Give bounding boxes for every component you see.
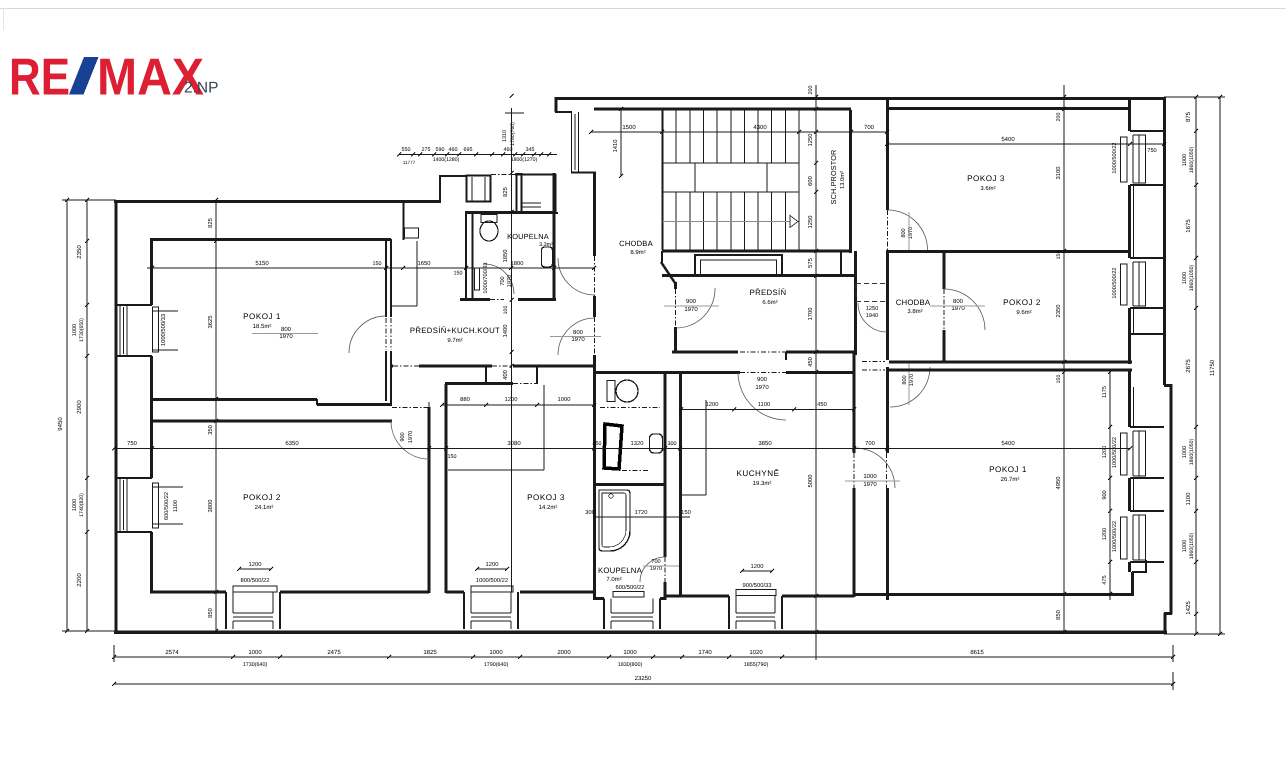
svg-text:1940: 1940 <box>866 313 878 319</box>
svg-text:900: 900 <box>757 376 768 383</box>
svg-text:700: 700 <box>500 276 506 285</box>
niche lines right of pokoj1 wall <box>416 241 418 306</box>
svg-text:PŘEDSÍŇ+KUCH.KOUT: PŘEDSÍŇ+KUCH.KOUT <box>410 326 500 335</box>
svg-text:2.NP: 2.NP <box>184 80 218 97</box>
svg-text:800: 800 <box>953 298 964 305</box>
svg-text:1000: 1000 <box>863 473 877 480</box>
svg-text:1970: 1970 <box>755 384 769 391</box>
pokoj1r bottom wall <box>854 593 1133 596</box>
svg-text:850: 850 <box>207 608 214 618</box>
svg-text:1000: 1000 <box>1182 154 1188 166</box>
svg-text:POKOJ 1: POKOJ 1 <box>989 465 1027 474</box>
stair block top wall <box>594 108 851 111</box>
radiator koupelna <box>613 592 644 598</box>
svg-text:6.6m²: 6.6m² <box>762 299 777 306</box>
outer wall left <box>115 200 118 631</box>
koupelna door dashed <box>664 557 666 582</box>
svg-text:1000: 1000 <box>1182 446 1188 458</box>
svg-text:900: 900 <box>1102 490 1108 499</box>
right rooms east wall with window gaps <box>1128 97 1131 131</box>
svg-text:24.1m²: 24.1m² <box>255 504 274 511</box>
svg-text:4300: 4300 <box>753 124 767 131</box>
dim line right outer <box>1195 97 1197 634</box>
pokoj1 left inner wall upper <box>150 239 153 305</box>
svg-text:POKOJ 2: POKOJ 2 <box>243 493 281 502</box>
koupelna7 north wall <box>594 483 665 486</box>
svg-text:3.6m²: 3.6m² <box>980 185 995 192</box>
svg-text:9.6m²: 9.6m² <box>1016 309 1031 316</box>
svg-text:8615: 8615 <box>970 649 984 656</box>
predsin south jog <box>785 352 787 360</box>
pokoj3 bottom west wall <box>445 384 448 593</box>
door chodba to predsin+kuchkout dashed <box>594 317 596 355</box>
entry window in south wall <box>522 202 541 204</box>
svg-text:1000: 1000 <box>558 396 571 403</box>
svg-text:1250: 1250 <box>866 306 878 312</box>
svg-text:PŘEDSÍŇ: PŘEDSÍŇ <box>750 288 787 297</box>
right window bay 2 <box>1130 257 1164 259</box>
svg-text:900: 900 <box>400 432 406 441</box>
svg-text:1850: 1850 <box>502 250 509 263</box>
outer wall right lower <box>1170 384 1173 614</box>
svg-text:1720: 1720 <box>635 509 648 516</box>
radiator koupelna33 <box>475 268 480 290</box>
svg-text:1740(820): 1740(820) <box>79 493 85 517</box>
long vertical dim line x511 <box>511 108 513 592</box>
svg-text:1000/500/22: 1000/500/22 <box>1111 521 1118 552</box>
svg-text:1500: 1500 <box>622 124 636 131</box>
svg-text:1400: 1400 <box>502 325 509 338</box>
chodba38 east wall <box>943 251 946 289</box>
vertical dim line x1110 <box>1109 372 1111 600</box>
svg-text:13.0m²: 13.0m² <box>839 171 846 189</box>
svg-text:2350: 2350 <box>1055 305 1062 318</box>
svg-text:1970: 1970 <box>408 431 414 443</box>
south wall of predsin+kuch.kout - left part <box>391 365 393 368</box>
svg-text:1970: 1970 <box>650 566 662 572</box>
bottom window bay 3 <box>603 599 605 630</box>
svg-text:9450: 9450 <box>57 417 64 431</box>
shaft dark box <box>604 424 622 469</box>
wall jog step <box>316 399 318 405</box>
svg-text:1740: 1740 <box>698 649 712 656</box>
svg-text:POKOJ 2: POKOJ 2 <box>1003 298 1041 307</box>
svg-text:700: 700 <box>865 440 875 447</box>
svg-text:7.0m²: 7.0m² <box>606 576 621 583</box>
door vestibule-chodba dashed <box>594 256 596 296</box>
svg-text:1000/500/33: 1000/500/33 <box>160 314 167 346</box>
predsin west door arc <box>676 288 715 328</box>
svg-text:825: 825 <box>502 187 509 197</box>
dim line y132 stairs <box>591 131 887 133</box>
svg-text:1250: 1250 <box>807 134 814 147</box>
dim row bottom total <box>114 683 1173 685</box>
dim line y268 pokoj1 <box>147 267 594 269</box>
svg-text:1780(760): 1780(760) <box>510 122 516 146</box>
wardrobe lines pokoj3 <box>543 385 545 470</box>
entry step wall <box>439 175 441 202</box>
svg-text:350: 350 <box>207 425 214 435</box>
svg-text:2900: 2900 <box>76 400 83 414</box>
svg-text:150: 150 <box>454 271 463 277</box>
outer wall right jog <box>1164 384 1172 387</box>
svg-text:1000: 1000 <box>1182 272 1188 284</box>
kitchen east wall <box>853 352 856 453</box>
stair landing lines <box>663 162 800 164</box>
svg-text:1860(1050): 1860(1050) <box>1189 438 1195 465</box>
predsin east wall <box>854 251 857 355</box>
svg-text:1970: 1970 <box>863 481 877 488</box>
svg-text:1250: 1250 <box>807 216 814 229</box>
pokoj1 top inner wall <box>150 238 391 241</box>
koupelna door arc <box>484 264 514 294</box>
bottom window bay 1 <box>225 592 227 629</box>
svg-text:880: 880 <box>460 396 470 403</box>
svg-text:1000/500/22: 1000/500/22 <box>1111 142 1118 173</box>
svg-text:SCH.PROSTOR: SCH.PROSTOR <box>829 150 838 205</box>
svg-text:3.3m²: 3.3m² <box>539 242 553 248</box>
svg-text:1860(1050): 1860(1050) <box>1189 264 1195 291</box>
predsin west wall <box>674 282 677 289</box>
svg-text:1825: 1825 <box>423 649 437 656</box>
svg-text:3800: 3800 <box>207 500 214 513</box>
predsin top wall <box>662 274 855 277</box>
bottom window bay 4 <box>728 596 730 629</box>
radiator right 1 <box>1121 137 1128 182</box>
svg-text:3850: 3850 <box>758 440 772 447</box>
dim line top entry <box>399 154 557 156</box>
chimney block at entry <box>467 176 491 202</box>
long vertical dim line x1064 <box>1063 85 1065 634</box>
svg-text:200: 200 <box>808 86 814 95</box>
pokoj3 top wall inner <box>888 107 1130 110</box>
svg-text:550: 550 <box>402 147 411 153</box>
svg-text:800: 800 <box>281 326 292 333</box>
svg-text:1000: 1000 <box>1182 540 1188 552</box>
svg-text:1200: 1200 <box>486 561 499 568</box>
svg-text:MAX: MAX <box>97 49 204 107</box>
stair walk line with arrow <box>663 221 791 223</box>
svg-text:1860(1050): 1860(1050) <box>1189 532 1195 559</box>
svg-text:1860(1050): 1860(1050) <box>1189 146 1195 173</box>
stair right string line <box>798 110 800 250</box>
svg-text:POKOJ 3: POKOJ 3 <box>967 174 1005 183</box>
svg-text:1400(1280): 1400(1280) <box>433 157 460 163</box>
pokoj2 north wall <box>150 420 392 423</box>
svg-text:2675: 2675 <box>1185 359 1192 373</box>
svg-text:POKOJ 3: POKOJ 3 <box>527 493 565 502</box>
outer wall bottom-right notch <box>1164 612 1172 615</box>
svg-text:1410: 1410 <box>612 140 619 153</box>
koupelna door dashed <box>490 299 504 301</box>
svg-text:1425: 1425 <box>1185 601 1192 615</box>
pokoj1 left inner wall lower <box>150 356 153 399</box>
entry inner wall block <box>517 174 522 213</box>
sink wc <box>650 434 663 453</box>
wc/kitchen north wall <box>594 371 740 374</box>
svg-text:150: 150 <box>373 261 382 267</box>
dim line y144 pokoj3 top <box>887 143 1164 145</box>
svg-text:600/500/22: 600/500/22 <box>615 584 644 591</box>
dim vertical 1410 <box>620 109 622 176</box>
svg-text:2475: 2475 <box>327 649 341 656</box>
svg-text:11750: 11750 <box>1209 359 1216 376</box>
door chodba38-pokoj3t dashed <box>887 210 889 250</box>
svg-text:1200: 1200 <box>249 561 262 568</box>
svg-text:5000: 5000 <box>807 475 814 488</box>
svg-text:800/500/22: 800/500/22 <box>240 577 269 584</box>
svg-text:1200: 1200 <box>751 563 764 570</box>
svg-text:18.5m²: 18.5m² <box>253 323 272 330</box>
long vertical dim line x216 <box>215 200 217 631</box>
sch.prostor right wall <box>849 110 852 253</box>
svg-text:8.9m²: 8.9m² <box>630 249 645 256</box>
svg-text:590: 590 <box>436 147 445 153</box>
svg-text:1100: 1100 <box>173 500 179 512</box>
pokoj1/predsin double wall east line <box>390 239 392 317</box>
svg-text:475: 475 <box>1102 575 1108 584</box>
svg-text:CHODBA: CHODBA <box>619 239 653 248</box>
notch verticals <box>485 366 487 384</box>
door arc chodba-predsin <box>558 318 595 355</box>
svg-text:460: 460 <box>449 147 458 153</box>
chodba38 west wall <box>886 97 889 210</box>
svg-text:1730(650): 1730(650) <box>79 318 85 342</box>
kitchen counter lines <box>705 400 707 495</box>
kitchen door arc <box>738 373 786 421</box>
under-stair recess <box>695 255 782 276</box>
pokoj2 left wall <box>150 400 153 478</box>
svg-text:1320: 1320 <box>631 440 644 447</box>
stair left wall <box>662 110 664 250</box>
svg-text:600/500/22: 600/500/22 <box>163 492 170 520</box>
wall stub at pokoj1 top right <box>402 202 404 240</box>
svg-text:300: 300 <box>585 509 595 516</box>
dim line y405 pokoj3b top <box>442 404 594 406</box>
svg-text:1000/500/22: 1000/500/22 <box>1111 267 1118 298</box>
north-west corner step <box>555 97 558 112</box>
wall pokoj1 south line A <box>150 398 317 401</box>
kitchen top dim line <box>681 409 854 411</box>
window bay left pokoj2 <box>116 477 152 479</box>
stair bottom wall <box>662 250 851 253</box>
page top hairline <box>0 8 1286 10</box>
door kitchen-pokoj1 dashed <box>853 453 855 488</box>
svg-text:1200: 1200 <box>1102 446 1108 458</box>
svg-text:900/500/33: 900/500/33 <box>742 582 771 589</box>
window west of stairs <box>571 112 573 172</box>
entry door opening dashed <box>491 174 515 176</box>
stair treads upper flight <box>662 110 664 163</box>
svg-text:750: 750 <box>127 440 137 447</box>
svg-text:1650: 1650 <box>418 260 431 267</box>
kitchen door dashed <box>740 351 786 353</box>
svg-text:400: 400 <box>502 370 509 380</box>
svg-text:KOUPELNA: KOUPELNA <box>598 566 643 575</box>
svg-text:300: 300 <box>668 441 677 447</box>
room bottom wall segments <box>150 590 226 593</box>
outer wall right upper <box>1163 97 1166 385</box>
wc toilet koupelna33 <box>481 215 497 223</box>
pokoj2r south wall <box>889 361 1132 364</box>
svg-text:1100: 1100 <box>1185 492 1192 506</box>
door pokoj1 dashed opening <box>385 318 387 350</box>
svg-text:3625: 3625 <box>207 316 214 329</box>
svg-text:450: 450 <box>593 441 602 447</box>
radiator kitchen bottom <box>736 590 776 596</box>
predsin west door dashed <box>675 289 677 328</box>
svg-text:600: 600 <box>807 176 814 186</box>
pokoj2 right wall <box>428 407 431 593</box>
radiator right 3 <box>1121 433 1128 475</box>
outer wall top-left section <box>114 200 441 203</box>
right window bay 4 <box>1130 510 1164 512</box>
bath bottom wall <box>594 597 604 600</box>
svg-text:800: 800 <box>901 228 907 237</box>
svg-text:5400: 5400 <box>1001 136 1015 143</box>
svg-text:200: 200 <box>1056 113 1062 122</box>
pokoj3/pokoj2 divider wall <box>888 250 1130 253</box>
kitchen bottom wall <box>665 595 729 598</box>
svg-text:1000: 1000 <box>72 324 78 336</box>
svg-text:1200: 1200 <box>706 401 719 408</box>
radiator pokoj2 left <box>153 483 159 528</box>
svg-text:750: 750 <box>1147 148 1156 154</box>
stair treads lower flight <box>662 192 664 250</box>
window bay left pokoj1 <box>116 304 152 306</box>
door openings dashed south <box>492 365 513 367</box>
svg-text:1970: 1970 <box>279 333 293 340</box>
dim line left outer <box>66 200 68 631</box>
svg-text:1000/500/22: 1000/500/22 <box>1111 437 1118 468</box>
svg-text:23250: 23250 <box>635 675 652 682</box>
svg-text:1200: 1200 <box>505 396 518 403</box>
dashed opening below shaft <box>622 470 649 472</box>
radiator pokoj2 bottom <box>233 586 277 592</box>
svg-text:1000: 1000 <box>72 499 78 511</box>
svg-text:CHODBA: CHODBA <box>896 298 931 307</box>
chodba west wall <box>593 172 596 256</box>
predsin chamfer <box>661 262 675 283</box>
svg-text:700: 700 <box>651 559 660 565</box>
bottom window bay 2 <box>463 592 465 629</box>
svg-text:3.8m²: 3.8m² <box>907 308 922 315</box>
svg-text:150: 150 <box>448 454 457 460</box>
svg-text:800: 800 <box>902 375 908 384</box>
svg-text:POKOJ 1: POKOJ 1 <box>243 312 281 321</box>
svg-text:1000/700/33: 1000/700/33 <box>482 262 489 293</box>
svg-text:1675: 1675 <box>1185 219 1192 233</box>
radiator right 4 <box>1121 517 1128 559</box>
svg-text:1970: 1970 <box>571 336 585 343</box>
svg-text:RE: RE <box>9 49 70 107</box>
south wall notch lower <box>445 382 513 385</box>
svg-text:900: 900 <box>686 298 697 305</box>
svg-text:11777: 11777 <box>403 160 416 165</box>
svg-text:2574: 2574 <box>165 649 179 656</box>
svg-text:1310: 1310 <box>502 130 508 142</box>
svg-text:2200: 2200 <box>76 573 83 587</box>
svg-text:KOUPELNA: KOUPELNA <box>507 232 549 241</box>
svg-text:14.2m²: 14.2m² <box>539 504 558 511</box>
door chodba38-pokoj2r dashed <box>943 289 945 330</box>
pokoj1r bottom-right step <box>1131 572 1134 596</box>
svg-text:1800: 1800 <box>511 260 524 267</box>
wall pokoj1 south line B <box>317 403 392 406</box>
door arc pokoj1r <box>855 448 895 488</box>
svg-text:1800(1270): 1800(1270) <box>511 157 538 163</box>
door chodba38-pokoj1r dashed <box>862 361 885 363</box>
right window bay 3 <box>1130 426 1164 428</box>
svg-text:5150: 5150 <box>255 260 269 267</box>
svg-text:450: 450 <box>817 401 827 408</box>
wc door dashed <box>600 407 660 409</box>
svg-text:825: 825 <box>207 218 214 228</box>
svg-text:1970: 1970 <box>507 275 513 287</box>
svg-text:1175: 1175 <box>1102 386 1108 398</box>
pier lines between right bays <box>1133 185 1135 258</box>
pokoj1r north wall <box>889 369 1132 372</box>
svg-text:695: 695 <box>464 147 473 153</box>
svg-text:1970: 1970 <box>684 306 698 313</box>
svg-text:1000/500/22: 1000/500/22 <box>476 577 508 584</box>
svg-text:5400: 5400 <box>1001 440 1015 447</box>
svg-text:800: 800 <box>573 329 584 336</box>
svg-text:2000: 2000 <box>557 649 571 656</box>
bath column west wall <box>593 365 596 600</box>
svg-text:3100: 3100 <box>1055 167 1062 180</box>
outer wall top (north) <box>555 97 1165 100</box>
flue box <box>405 228 419 238</box>
bath tub <box>599 490 630 551</box>
svg-text:275: 275 <box>422 147 431 153</box>
south wall right part <box>513 365 594 368</box>
svg-text:1970: 1970 <box>909 374 915 386</box>
main dim line y448 <box>114 448 1130 450</box>
predsin south wall <box>672 351 738 354</box>
svg-text:700: 700 <box>864 124 875 131</box>
nook wall right of recess <box>840 251 842 276</box>
svg-text:875: 875 <box>1185 111 1192 122</box>
svg-text:1700: 1700 <box>807 308 814 321</box>
svg-text:6350: 6350 <box>285 440 299 447</box>
door pokoj1 arc <box>349 316 386 353</box>
svg-text:150: 150 <box>1056 251 1062 260</box>
svg-text:345: 345 <box>526 147 535 153</box>
wc toilet <box>607 381 615 402</box>
pokoj1/predsin double wall west line <box>385 239 387 317</box>
bath dim 1720 <box>596 516 690 518</box>
svg-text:KUCHYNĚ: KUCHYNĚ <box>736 468 779 478</box>
window dim ticks pokoj1 left <box>152 310 178 312</box>
svg-text:150: 150 <box>1056 375 1062 384</box>
svg-text:450: 450 <box>807 357 814 367</box>
radiator pokoj3 bottom <box>471 586 513 592</box>
svg-text:575: 575 <box>808 258 814 268</box>
svg-text:1200: 1200 <box>1102 528 1108 540</box>
sink koupelna33 <box>542 247 553 267</box>
svg-text:1790(640): 1790(640) <box>484 662 509 668</box>
svg-text:2350: 2350 <box>76 245 83 259</box>
svg-text:1000: 1000 <box>489 649 503 656</box>
koupelna 3.3 room walls <box>465 211 555 214</box>
svg-text:850: 850 <box>1055 610 1062 620</box>
svg-text:19.3m²: 19.3m² <box>753 480 772 487</box>
radiator right 2 <box>1121 264 1128 305</box>
svg-text:1830(800): 1830(800) <box>618 662 643 668</box>
long vertical dim line x816 <box>815 85 817 660</box>
bath column east wall <box>664 372 667 557</box>
